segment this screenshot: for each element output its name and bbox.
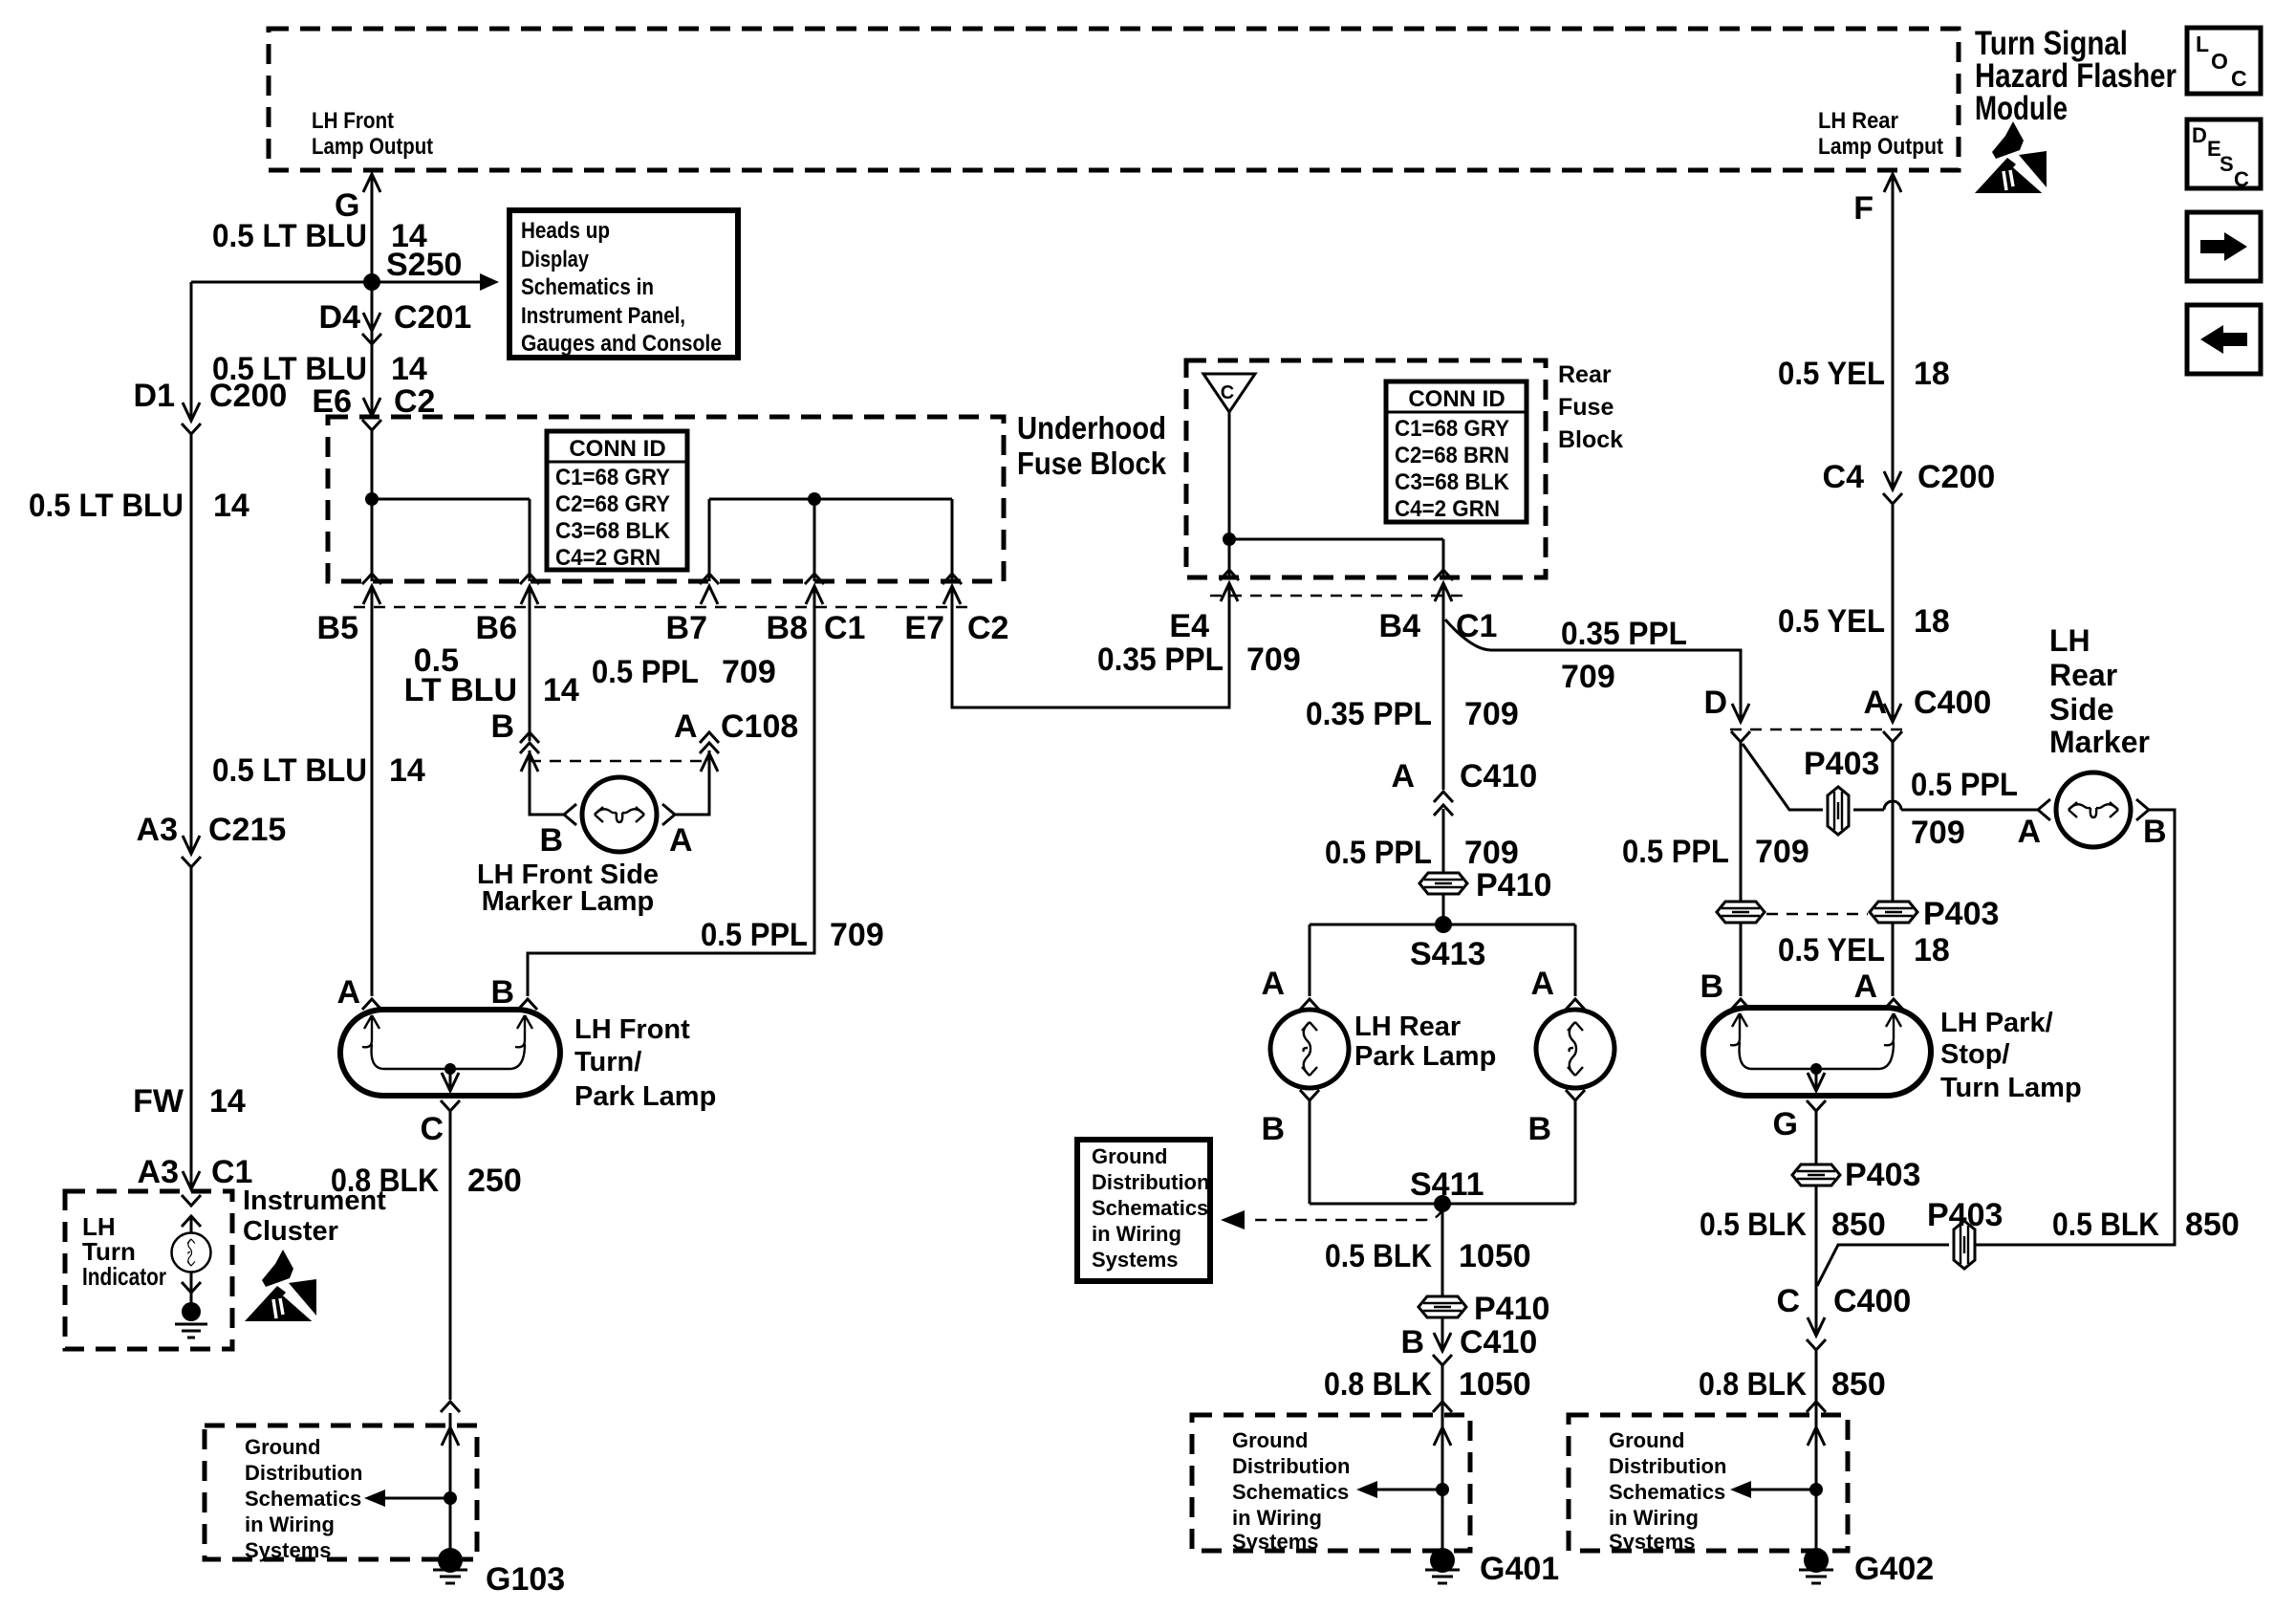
svg-text:F: F xyxy=(1853,190,1874,227)
wire D down (B branch) xyxy=(1740,742,1743,996)
svg-text:C201: C201 xyxy=(394,299,471,336)
arrow to Heads up Display box xyxy=(372,273,499,291)
svg-text:in Wiring: in Wiring xyxy=(1092,1222,1181,1246)
wire B5 down to front lamp A xyxy=(362,586,381,1010)
svg-text:1050: 1050 xyxy=(1459,1238,1531,1274)
svg-text:C1: C1 xyxy=(824,610,865,646)
wire 850 into G wire xyxy=(1817,1245,1949,1286)
Ground Distribution box left xyxy=(205,1425,477,1562)
svg-text:Park Lamp: Park Lamp xyxy=(1354,1041,1496,1072)
lamp LH Front Turn/Park xyxy=(340,1010,560,1096)
label 0.5 YEL 18 xyxy=(1778,356,1950,392)
Underhood Fuse Block box xyxy=(328,417,1004,581)
Ground Distribution box center xyxy=(1192,1415,1470,1554)
pin B5 xyxy=(317,574,381,646)
svg-text:Gauges and Console: Gauges and Console xyxy=(521,331,722,357)
ground G103 xyxy=(433,1548,565,1598)
svg-text:0.5 LT BLU: 0.5 LT BLU xyxy=(29,488,184,524)
svg-text:709: 709 xyxy=(830,917,884,953)
label 0.5 LT BLU 14 xyxy=(404,642,579,708)
svg-text:0.5 LT BLU: 0.5 LT BLU xyxy=(212,218,367,254)
svg-text:Lamp Output: Lamp Output xyxy=(1818,134,1943,160)
svg-text:C2=68 GRY: C2=68 GRY xyxy=(555,491,670,517)
svg-text:C1=68 GRY: C1=68 GRY xyxy=(555,465,670,490)
svg-text:A3: A3 xyxy=(138,1154,179,1190)
label 0.5 LT BLU 14 xyxy=(212,752,425,789)
Rear Fuse Block box xyxy=(1186,360,1546,577)
LH Park/Stop/Turn Lamp label xyxy=(1940,1008,2082,1103)
svg-text:A: A xyxy=(1261,966,1285,1002)
connector P410 lower xyxy=(1419,1291,1549,1327)
svg-text:B: B xyxy=(490,708,514,745)
svg-text:Distribution: Distribution xyxy=(1232,1454,1350,1478)
wire side marker A to B7 xyxy=(675,751,709,815)
svg-text:LH: LH xyxy=(2049,623,2090,658)
LH Rear Park Lamp label xyxy=(1354,1012,1496,1072)
label 0.5 LT BLU 14 xyxy=(212,218,427,254)
splice S250 xyxy=(363,247,462,291)
svg-text:Turn/: Turn/ xyxy=(574,1047,641,1077)
module label LH Front Lamp Output xyxy=(312,108,433,160)
svg-text:S250: S250 xyxy=(386,247,462,283)
svg-text:in Wiring: in Wiring xyxy=(245,1512,335,1536)
Rear Fuse Block label xyxy=(1558,361,1623,453)
label 0.35 PPL over branch xyxy=(1561,616,1687,695)
svg-text:B: B xyxy=(1400,1324,1424,1360)
Turn Signal Hazard Flasher Module box xyxy=(269,29,1959,170)
svg-text:0.5 PPL: 0.5 PPL xyxy=(1911,767,2018,803)
connector C108 xyxy=(490,708,798,772)
svg-text:Fuse Block: Fuse Block xyxy=(1017,446,1167,481)
svg-text:14: 14 xyxy=(389,752,425,789)
svg-text:Turn Lamp: Turn Lamp xyxy=(1940,1073,2082,1103)
svg-text:0.5 YEL: 0.5 YEL xyxy=(1778,603,1885,640)
svg-text:0.5 PPL: 0.5 PPL xyxy=(701,917,808,953)
connector P403 inline xyxy=(1804,746,1879,835)
pin E7 / C2 xyxy=(904,574,1008,646)
svg-text:Marker Lamp: Marker Lamp xyxy=(482,886,655,917)
wire S411 down xyxy=(1441,1204,1444,1549)
label 0.8 BLK 250 xyxy=(331,1163,522,1199)
svg-text:C400: C400 xyxy=(1914,685,1991,721)
svg-text:CONN ID: CONN ID xyxy=(569,436,665,462)
label 0.5 PPL 709 xyxy=(592,654,776,690)
svg-text:P403: P403 xyxy=(1804,746,1879,782)
label 0.5 LT BLU 14 xyxy=(29,488,249,524)
right park lamp branch xyxy=(1530,925,1585,1010)
svg-text:C4=2 GRN: C4=2 GRN xyxy=(555,545,661,571)
connector E6 C2 into fuse block xyxy=(312,383,435,430)
wire below indicator xyxy=(182,1272,201,1304)
svg-text:L: L xyxy=(2196,32,2209,56)
chevrons into lamp xyxy=(1731,999,1903,1010)
LH Rear Side Marker label xyxy=(2049,623,2150,759)
arrow to schematics center xyxy=(1356,1481,1449,1498)
label 0.5 BLK 1050 xyxy=(1325,1238,1531,1274)
note box Ground Distribution center xyxy=(1077,1140,1210,1281)
CONN ID table underhood xyxy=(547,431,687,571)
connector A3 C215 xyxy=(137,812,287,867)
svg-text:B: B xyxy=(2143,814,2167,850)
side marker pins xyxy=(2017,814,2166,850)
svg-text:0.5 PPL: 0.5 PPL xyxy=(1325,835,1432,871)
pin B8 / C1 xyxy=(767,574,866,646)
wire D1 branch down left xyxy=(190,282,193,1189)
svg-text:E6: E6 xyxy=(312,383,352,420)
svg-text:G401: G401 xyxy=(1480,1551,1559,1587)
underhood C2 label xyxy=(0,0,1,1)
arrow to schematics right xyxy=(1730,1481,1823,1498)
svg-text:B8: B8 xyxy=(767,610,808,646)
LOC icon box xyxy=(2187,28,2261,94)
DESC icon box xyxy=(2187,120,2261,191)
svg-text:Display: Display xyxy=(521,247,590,272)
svg-text:14: 14 xyxy=(209,1083,246,1120)
svg-text:C3=68 BLK: C3=68 BLK xyxy=(555,518,671,544)
svg-text:C4=2 GRN: C4=2 GRN xyxy=(1395,496,1500,522)
connector P410 xyxy=(1419,867,1551,903)
svg-text:709: 709 xyxy=(1464,835,1519,871)
svg-text:LH Park/: LH Park/ xyxy=(1940,1008,2053,1038)
wire P403 to side marker with hop xyxy=(1853,801,2038,810)
svg-text:Rear: Rear xyxy=(2049,658,2117,692)
front lamp pin letters xyxy=(336,974,514,1011)
connector B C410 xyxy=(1400,1324,1537,1365)
svg-text:P403: P403 xyxy=(1927,1197,2003,1233)
connector line below underhood xyxy=(354,606,967,608)
Instrument Cluster box xyxy=(65,1191,232,1349)
pin E4 xyxy=(1169,570,1239,644)
entry to ground box right xyxy=(1807,1402,1826,1446)
LH Front Turn/Park Lamp label xyxy=(574,1014,716,1112)
svg-text:18: 18 xyxy=(1914,932,1950,968)
entry to ground box center xyxy=(1433,1402,1452,1446)
svg-text:P410: P410 xyxy=(1474,1291,1549,1327)
svg-text:B6: B6 xyxy=(476,610,517,646)
wire F down xyxy=(1892,175,1895,996)
splice S411 xyxy=(1310,1166,1575,1212)
lamp LH Rear Side Marker xyxy=(2038,772,2149,847)
wire S250 left xyxy=(191,281,372,284)
pin B4 / C1 xyxy=(1379,570,1498,644)
svg-text:709: 709 xyxy=(1755,834,1809,870)
svg-text:14: 14 xyxy=(391,351,427,387)
label 0.5 BLK 850 xyxy=(1700,1207,1886,1243)
svg-text:709: 709 xyxy=(1561,659,1615,695)
svg-text:0.5 YEL: 0.5 YEL xyxy=(1778,932,1885,968)
svg-text:C: C xyxy=(2234,167,2249,191)
svg-text:C3=68 BLK: C3=68 BLK xyxy=(1395,469,1510,495)
connector P403 on 850 wire xyxy=(1927,1197,2003,1269)
svg-text:850: 850 xyxy=(1831,1366,1886,1403)
svg-text:A: A xyxy=(336,974,360,1011)
Ground Distribution box right xyxy=(1569,1415,1848,1554)
wire E7 to rear fuse block E4 xyxy=(952,583,1229,707)
svg-text:G: G xyxy=(1773,1106,1798,1142)
svg-text:Heads up: Heads up xyxy=(521,218,610,244)
svg-text:Marker: Marker xyxy=(2049,725,2150,759)
wire side marker B to right riser xyxy=(1974,810,2175,1245)
svg-text:LH Front: LH Front xyxy=(574,1014,690,1045)
wire G down to S250 xyxy=(371,175,374,282)
label 0.8 BLK 1050 xyxy=(1324,1366,1531,1403)
svg-text:C: C xyxy=(420,1111,444,1147)
label FW 14 xyxy=(133,1083,246,1120)
connector C400 A and D xyxy=(1863,685,1991,742)
module title xyxy=(1975,25,2177,127)
label 0.5 LT BLU 14 xyxy=(212,351,427,387)
svg-text:709: 709 xyxy=(722,654,776,690)
label 0.5 PPL over wire xyxy=(1911,767,2018,851)
wire B4 down xyxy=(1442,583,1445,925)
svg-text:0.8 BLK: 0.8 BLK xyxy=(1324,1366,1432,1403)
svg-text:Indicator: Indicator xyxy=(82,1262,166,1291)
LH Front Side Marker Lamp label xyxy=(477,859,659,917)
svg-text:18: 18 xyxy=(1914,603,1950,640)
svg-text:C4: C4 xyxy=(1823,459,1865,495)
connector P403 pair xyxy=(1717,896,1999,932)
S413 rail xyxy=(1310,924,1575,926)
svg-text:A3: A3 xyxy=(137,812,178,848)
svg-text:709: 709 xyxy=(1911,815,1965,851)
Heads up Display note box xyxy=(509,210,738,358)
wires inside rear block xyxy=(1223,412,1443,577)
svg-text:850: 850 xyxy=(2185,1207,2240,1243)
svg-text:Distribution: Distribution xyxy=(1609,1454,1726,1478)
label 0.5 PPL 709 xyxy=(1325,835,1519,871)
svg-text:Distribution: Distribution xyxy=(1092,1170,1209,1194)
label 0.35 PPL 709 xyxy=(1097,642,1301,678)
side marker pin letters xyxy=(539,822,692,859)
svg-text:D4: D4 xyxy=(319,299,361,336)
svg-text:C1=68 GRY: C1=68 GRY xyxy=(1395,416,1509,442)
lamp LH Rear Park right xyxy=(1536,1010,1614,1088)
LH Turn Indicator label xyxy=(82,1212,166,1291)
branch B4 to D xyxy=(1445,620,1741,720)
wire B8 down and left to front lamp B xyxy=(518,586,814,1010)
lamp LH Front Side Marker xyxy=(564,777,675,852)
label 0.5 BLK 850 right xyxy=(2052,1207,2240,1243)
svg-text:C108: C108 xyxy=(721,708,798,745)
svg-text:Underhood: Underhood xyxy=(1017,410,1166,446)
wire into indicator xyxy=(190,1216,193,1233)
wire C down to G103 xyxy=(449,1111,452,1549)
svg-text:C: C xyxy=(1221,382,1234,403)
ground in cluster xyxy=(175,1302,207,1338)
svg-text:LT BLU: LT BLU xyxy=(404,672,517,708)
svg-text:0.35 PPL: 0.35 PPL xyxy=(1097,642,1224,678)
svg-text:B7: B7 xyxy=(666,610,707,646)
svg-text:LH Rear: LH Rear xyxy=(1818,108,1898,134)
svg-text:Ground: Ground xyxy=(1609,1428,1684,1452)
svg-text:0.8 BLK: 0.8 BLK xyxy=(331,1163,439,1199)
svg-text:CONN ID: CONN ID xyxy=(1408,386,1505,412)
wire S250 down xyxy=(371,282,374,417)
svg-text:14: 14 xyxy=(543,672,579,708)
svg-text:0.35 PPL: 0.35 PPL xyxy=(1306,696,1432,732)
svg-text:Systems: Systems xyxy=(245,1538,332,1562)
connector line below rear block xyxy=(1210,595,1462,597)
svg-text:C200: C200 xyxy=(209,378,287,414)
svg-text:Systems: Systems xyxy=(1609,1530,1696,1554)
svg-text:A: A xyxy=(1853,968,1877,1005)
connector A C410 xyxy=(1391,758,1537,816)
svg-text:A: A xyxy=(1863,685,1887,721)
svg-text:P410: P410 xyxy=(1476,867,1551,903)
Instrument Cluster label xyxy=(243,1186,386,1247)
svg-text:B: B xyxy=(490,974,514,1011)
svg-text:Schematics in: Schematics in xyxy=(521,274,654,300)
svg-text:Ground: Ground xyxy=(1232,1428,1308,1452)
svg-text:Instrument Panel,: Instrument Panel, xyxy=(521,303,685,329)
CONN ID table rear xyxy=(1386,381,1527,522)
svg-text:E7: E7 xyxy=(904,610,944,646)
svg-text:Distribution: Distribution xyxy=(245,1461,362,1485)
pin B7 xyxy=(666,574,719,646)
svg-text:A: A xyxy=(1530,966,1554,1002)
connector D1 C200 xyxy=(134,378,288,434)
svg-text:Module: Module xyxy=(1975,90,2068,127)
left arrow icon box xyxy=(2187,305,2261,374)
svg-text:B: B xyxy=(1261,1111,1285,1147)
svg-text:Schematics: Schematics xyxy=(1232,1480,1349,1504)
pin G xyxy=(1773,1100,1826,1142)
pin C xyxy=(420,1100,460,1147)
splice S413 xyxy=(1410,916,1485,972)
label 0.8 BLK 850 xyxy=(1699,1366,1886,1403)
svg-text:0.5 YEL: 0.5 YEL xyxy=(1778,356,1885,392)
svg-text:S: S xyxy=(2220,152,2234,176)
svg-text:D: D xyxy=(2192,123,2207,147)
svg-text:Schematics: Schematics xyxy=(1092,1196,1208,1220)
svg-text:S411: S411 xyxy=(1410,1166,1484,1203)
ESD symbol cluster xyxy=(245,1250,317,1322)
svg-text:Block: Block xyxy=(1558,426,1623,453)
svg-text:D: D xyxy=(1703,685,1727,721)
lamp LH Rear Park left xyxy=(1270,1010,1349,1088)
svg-text:18: 18 xyxy=(1914,356,1950,392)
svg-text:C410: C410 xyxy=(1460,1324,1537,1360)
connector P403 on G wire xyxy=(1792,1157,1920,1193)
connector C C400 xyxy=(1776,1283,1911,1350)
label 0.5 PPL 709 xyxy=(701,917,884,953)
svg-text:C215: C215 xyxy=(208,812,286,848)
svg-text:C1: C1 xyxy=(1456,608,1497,644)
Underhood Fuse Block label xyxy=(1017,410,1167,481)
svg-text:in Wiring: in Wiring xyxy=(1232,1506,1322,1530)
svg-text:0.5 BLK: 0.5 BLK xyxy=(2052,1207,2159,1243)
svg-text:Systems: Systems xyxy=(1092,1248,1179,1272)
ESD symbol top xyxy=(1975,121,2047,194)
dashed arrow to note box xyxy=(1221,1208,1442,1229)
svg-text:Ground: Ground xyxy=(1092,1144,1167,1168)
svg-text:Systems: Systems xyxy=(1232,1530,1319,1554)
svg-text:A: A xyxy=(2017,814,2041,850)
svg-text:1050: 1050 xyxy=(1459,1366,1531,1403)
svg-text:14: 14 xyxy=(213,488,249,524)
svg-text:0.5 PPL: 0.5 PPL xyxy=(1622,834,1729,870)
wire B6 down to side marker B xyxy=(530,586,564,815)
svg-text:Ground: Ground xyxy=(245,1435,320,1459)
fuse symbol C xyxy=(1203,374,1255,412)
svg-text:0.5 BLK: 0.5 BLK xyxy=(1700,1207,1807,1243)
svg-text:250: 250 xyxy=(467,1163,522,1199)
svg-text:C200: C200 xyxy=(1917,459,1995,495)
svg-text:Schematics: Schematics xyxy=(1609,1480,1725,1504)
right arrow icon box xyxy=(2187,212,2261,281)
wire G down to G402 xyxy=(1815,1111,1818,1549)
svg-text:A: A xyxy=(669,822,693,859)
svg-text:C2: C2 xyxy=(967,610,1008,646)
label 0.35 PPL 709 vertical xyxy=(1306,696,1519,732)
svg-text:P403: P403 xyxy=(1923,896,1999,932)
ground G402 xyxy=(1799,1548,1934,1587)
svg-text:Park Lamp: Park Lamp xyxy=(574,1081,716,1112)
svg-text:C: C xyxy=(1776,1283,1800,1319)
svg-text:C400: C400 xyxy=(1833,1283,1911,1319)
left park lamp branch xyxy=(1261,925,1319,1010)
svg-text:D1: D1 xyxy=(134,378,175,414)
svg-text:G402: G402 xyxy=(1854,1551,1934,1587)
svg-text:0.35 PPL: 0.35 PPL xyxy=(1561,616,1687,652)
module label LH Rear Lamp Output xyxy=(1818,108,1943,160)
svg-text:C410: C410 xyxy=(1460,758,1537,794)
svg-text:850: 850 xyxy=(1831,1207,1886,1243)
right branch below xyxy=(1527,1090,1585,1204)
svg-text:O: O xyxy=(2211,49,2228,74)
wires inside underhood block xyxy=(365,430,530,581)
svg-text:G103: G103 xyxy=(486,1561,565,1598)
svg-text:LH Rear: LH Rear xyxy=(1354,1012,1461,1042)
svg-text:Rear: Rear xyxy=(1558,361,1612,388)
pin G of module xyxy=(335,174,380,224)
connector D4 C201 xyxy=(319,299,472,344)
C400 connector line xyxy=(1730,729,1904,730)
svg-text:C: C xyxy=(2231,66,2247,91)
svg-text:B: B xyxy=(1700,968,1723,1005)
svg-text:0.8 BLK: 0.8 BLK xyxy=(1699,1366,1807,1403)
svg-text:0.5 BLK: 0.5 BLK xyxy=(1325,1238,1432,1274)
svg-text:Lamp Output: Lamp Output xyxy=(312,134,433,160)
svg-text:C2: C2 xyxy=(394,383,435,420)
svg-text:P403: P403 xyxy=(1845,1157,1920,1193)
svg-text:C2=68 BRN: C2=68 BRN xyxy=(1395,443,1509,468)
svg-text:0.5 LT BLU: 0.5 LT BLU xyxy=(212,752,367,789)
svg-text:B4: B4 xyxy=(1379,608,1421,644)
lamp LH Park/Stop/Turn xyxy=(1703,1008,1931,1096)
svg-text:Fuse: Fuse xyxy=(1558,394,1614,421)
svg-text:B: B xyxy=(1527,1111,1551,1147)
diagonal D to P403 horizontal xyxy=(1743,744,1823,810)
lamp LH Turn Indicator xyxy=(172,1233,211,1273)
pin F of module xyxy=(1853,174,1901,227)
svg-text:B5: B5 xyxy=(317,610,358,646)
svg-text:LH Front: LH Front xyxy=(312,108,394,134)
svg-text:Cluster: Cluster xyxy=(243,1216,338,1247)
park/stop lamp pin letters xyxy=(1700,968,1877,1005)
svg-text:E4: E4 xyxy=(1169,608,1209,644)
svg-text:709: 709 xyxy=(1464,696,1519,732)
svg-text:B: B xyxy=(539,822,563,859)
connector C4 C200 xyxy=(1823,459,1996,504)
svg-text:S413: S413 xyxy=(1410,936,1485,972)
svg-text:FW: FW xyxy=(133,1083,184,1120)
label 0.5 YEL 18 xyxy=(1778,603,1950,640)
arrow to schematics left xyxy=(364,1490,457,1507)
svg-text:Side: Side xyxy=(2049,692,2114,727)
svg-text:709: 709 xyxy=(1246,642,1301,678)
svg-text:A: A xyxy=(674,708,698,745)
